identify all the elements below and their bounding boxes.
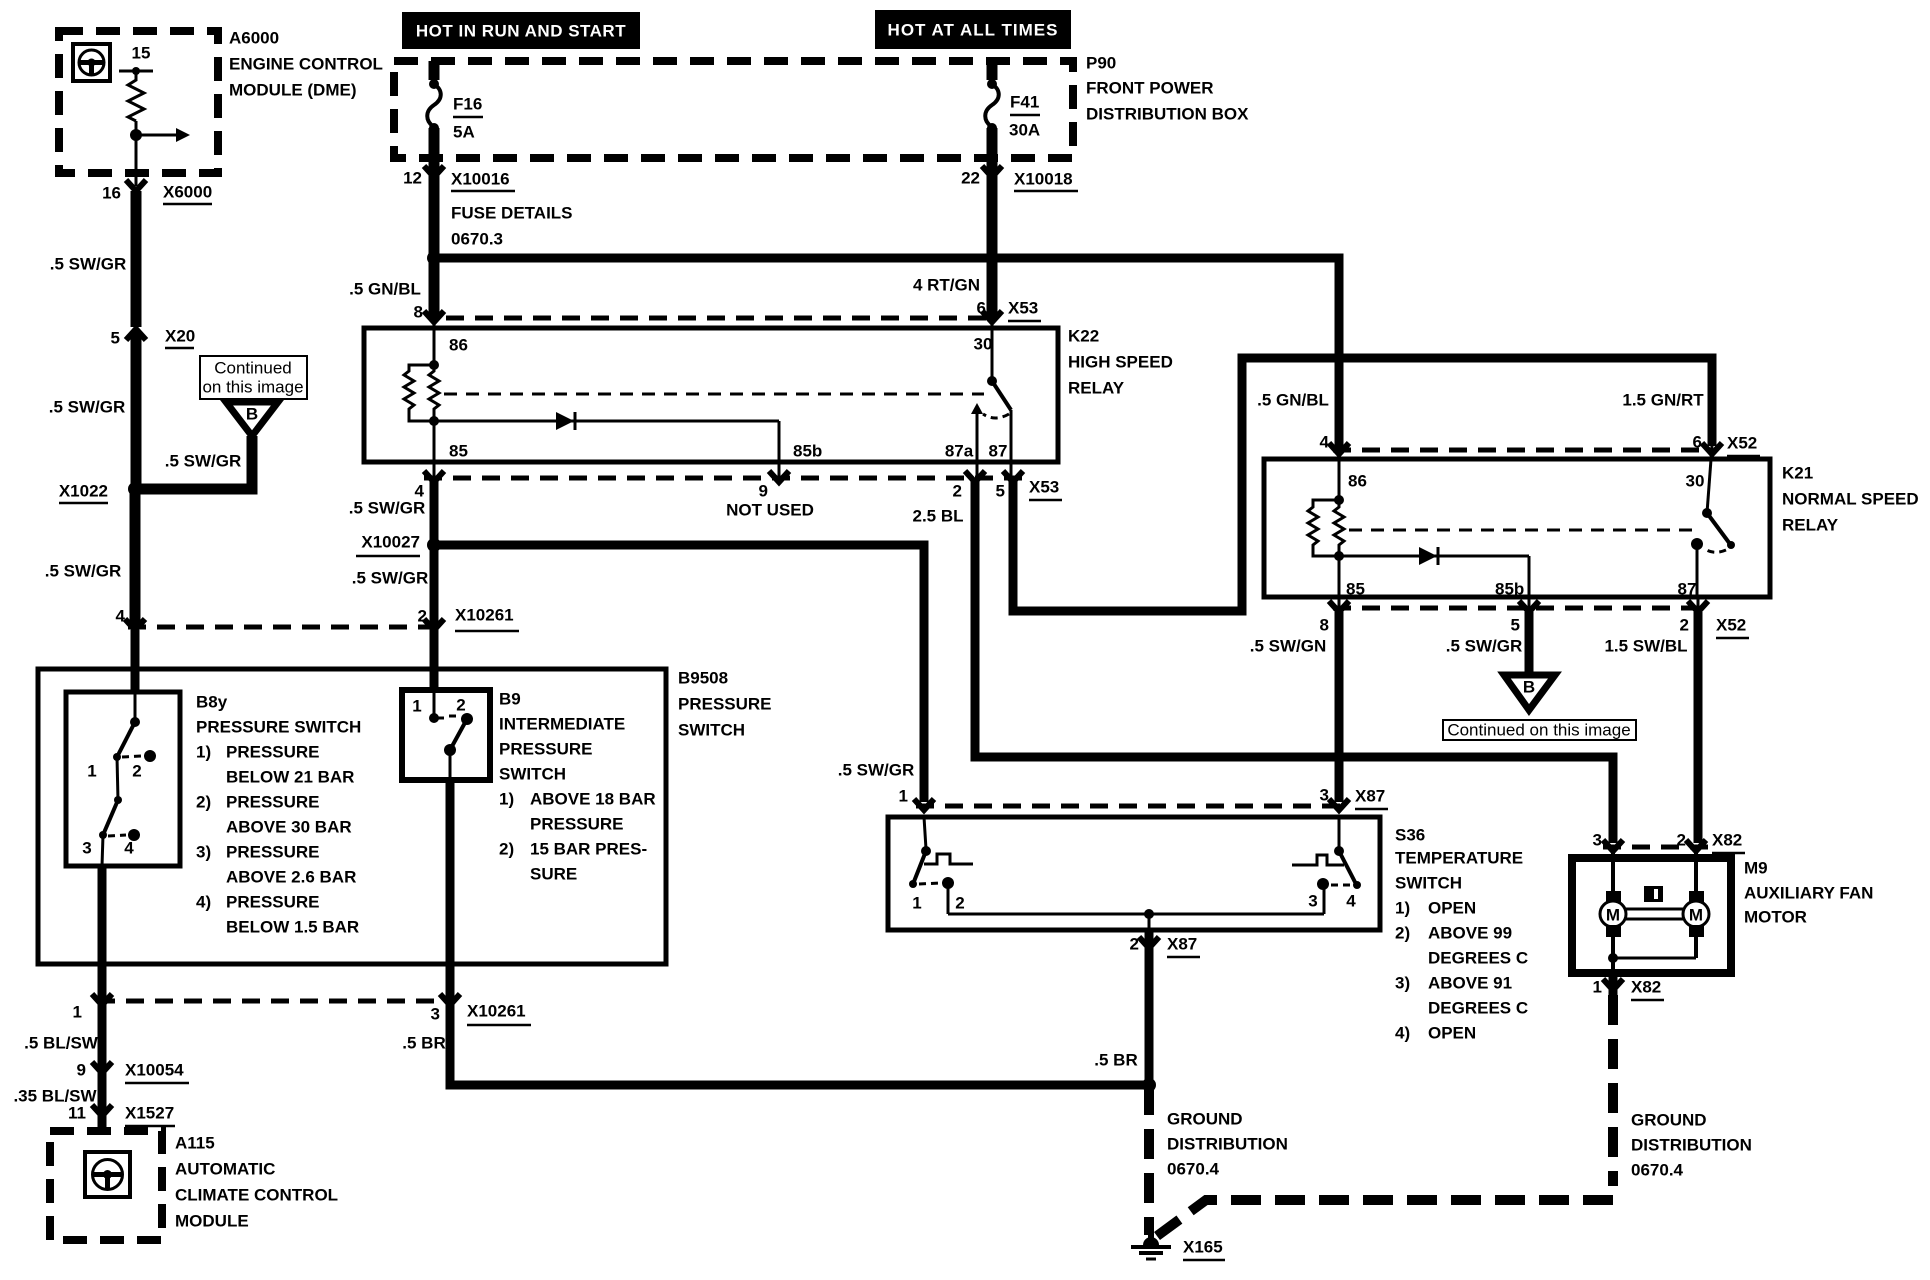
K22 armature link dashed [444,393,984,396]
X53 pin 9 chevron not used [726,471,814,520]
X53 pin 5 chevron [996,471,1023,501]
svg-text:INTERMEDIATE: INTERMEDIATE [499,715,625,734]
svg-text:DISTRIBUTION BOX: DISTRIBUTION BOX [1086,105,1249,124]
svg-text:.5 SW/GR: .5 SW/GR [349,499,426,518]
svg-text:OPEN: OPEN [1428,899,1476,918]
junction X10027 [356,533,441,557]
svg-text:X1022: X1022 [59,482,108,501]
junction fuse bus node [427,251,441,265]
svg-text:2: 2 [456,696,465,715]
svg-text:1): 1) [1395,899,1410,918]
svg-text:A115: A115 [175,1134,215,1153]
S36 right terminal labels [1308,892,1356,911]
connector X53 bottom label [1029,478,1062,501]
svg-text:RELAY: RELAY [1068,379,1125,398]
svg-text:F16: F16 [453,95,482,114]
svg-text:SWITCH: SWITCH [678,721,745,740]
svg-text:2): 2) [1395,924,1410,943]
svg-text:FRONT POWER: FRONT POWER [1086,79,1214,98]
svg-text:BELOW 1.5 BAR: BELOW 1.5 BAR [226,918,359,937]
note FUSE DETAILS 0670.3 [451,204,573,249]
B9 terminal labels [412,696,465,716]
fuse F41 [985,61,999,158]
front power distribution box P90 dashed border [394,61,1073,158]
X52 pin 2 chevron and label [1680,601,1749,638]
svg-text:X53: X53 [1029,478,1059,497]
svg-text:.5 GN/BL: .5 GN/BL [1257,391,1329,410]
svg-text:AUXILIARY FAN: AUXILIARY FAN [1744,884,1873,903]
connector X20 label [165,327,195,349]
svg-text:DISTRIBUTION: DISTRIBUTION [1167,1135,1288,1154]
svg-text:1: 1 [73,1003,82,1022]
svg-text:4: 4 [116,607,126,626]
svg-text:11: 11 [68,1104,86,1123]
svg-text:16: 16 [102,184,121,203]
continuation triangle B left [226,402,278,436]
svg-text:ABOVE 30 BAR: ABOVE 30 BAR [226,818,352,837]
wire M9 to ground stub [1609,973,1618,995]
module A6000 engine control module dashed box [59,31,218,173]
svg-text:X52: X52 [1716,616,1746,635]
svg-text:NORMAL SPEED: NORMAL SPEED [1782,490,1919,509]
svg-text:12: 12 [403,169,422,188]
intermediate pressure switch B9 box [402,690,490,780]
svg-text:2): 2) [499,840,514,859]
svg-text:Continued on this image: Continued on this image [1447,721,1630,740]
svg-text:3: 3 [1320,786,1329,805]
M9 right motor [1683,851,1709,958]
resistor inside A6000 [128,71,144,121]
svg-text:85: 85 [1346,580,1365,599]
B8y description text [196,693,361,937]
svg-text:2: 2 [1677,831,1686,850]
svg-text:.5 SW/GR: .5 SW/GR [45,562,122,581]
M9 resistor element icon [1644,886,1663,902]
connector X52 top dashed line [1333,448,1705,453]
svg-text:X10016: X10016 [451,170,510,189]
svg-text:5A: 5A [453,123,475,142]
svg-text:ABOVE 99: ABOVE 99 [1428,924,1512,943]
svg-text:9: 9 [759,482,768,501]
svg-text:P90: P90 [1086,54,1116,73]
S36 output bus to pin 2 [948,909,1324,930]
B9 switch internals [429,690,473,780]
wire X10261 pin 4 into B8y [131,630,140,694]
connector X10261 bottom dashed line [97,999,455,1004]
svg-text:MOTOR: MOTOR [1744,908,1807,927]
svg-text:NOT USED: NOT USED [726,501,814,520]
S36 labels [1395,826,1528,1043]
svg-text:87a: 87a [945,442,974,461]
svg-text:GROUND: GROUND [1167,1110,1243,1129]
svg-text:Continued: Continued [214,359,292,378]
X87 pin 1 chevron [899,787,934,811]
svg-text:PRESSURE: PRESSURE [499,740,593,759]
B9508 labels [678,669,772,740]
ground distribution note right [1631,1111,1752,1180]
relay K22 labels [1068,327,1173,398]
X82 pin 3 chevron [1593,831,1623,852]
connector X87 pin 2 chevron and label [1130,935,1200,958]
svg-text:.5 SW/GR: .5 SW/GR [838,761,915,780]
svg-text:3): 3) [1395,974,1410,993]
X52 pin 5 chevron [1511,601,1539,635]
module icon A6000 [73,44,110,81]
M9 internal ground link [1608,953,1696,973]
svg-text:2: 2 [1680,616,1689,635]
svg-text:5: 5 [1511,616,1520,635]
connector X1022 label [59,482,108,504]
svg-text:SURE: SURE [530,865,577,884]
fuse F16 labels [453,95,483,142]
svg-text:4 RT/GN: 4 RT/GN [913,276,980,295]
M9 left motor [1600,851,1626,958]
wire K22 pin 4 down to B9 .5 SW/GR [430,480,439,690]
M9 shaft coupling [1626,909,1683,919]
svg-text:2: 2 [132,762,141,781]
svg-text:1: 1 [87,762,96,781]
wire F16 to K22 pin 86 .5 GN/BL [429,158,440,320]
svg-text:.5 BL/SW: .5 BL/SW [24,1034,99,1053]
svg-text:X10018: X10018 [1014,170,1073,189]
svg-text:X20: X20 [165,327,195,346]
wire K22 87 output 1.5 GN/RT to K21 pin 30 [1013,358,1712,611]
M9 labels [1744,859,1873,927]
K21 diode and wire to 85b [1339,547,1529,597]
module A6000 labels [229,29,383,100]
continued note box right [1443,720,1636,740]
B8y switch internals [99,694,156,866]
svg-text:.5 SW/GR: .5 SW/GR [50,255,127,274]
svg-text:GROUND: GROUND [1631,1111,1707,1130]
svg-text:X52: X52 [1727,434,1757,453]
pressure switch assembly B9508 box [38,669,666,964]
svg-text:M: M [1606,906,1620,925]
junction ground node [1142,1078,1156,1092]
K22 switch pin 30 to 87 [971,320,1011,462]
svg-text:PRESSURE: PRESSURE [530,815,624,834]
svg-text:ABOVE 91: ABOVE 91 [1428,974,1512,993]
svg-text:1: 1 [899,787,908,806]
K22 coil [404,320,439,462]
connector X87 dashed line [916,804,1345,809]
svg-text:4): 4) [1395,1024,1410,1043]
wire K21 87 to M9 pin 2 1.5 SW/BL [1694,612,1703,843]
svg-text:PRESSURE: PRESSURE [226,793,320,812]
svg-text:HOT AT ALL TIMES: HOT AT ALL TIMES [888,21,1059,40]
connector X6000 pin 16 chevron [126,180,146,191]
svg-text:22: 22 [961,169,980,188]
svg-text:.5 SW/GR: .5 SW/GR [165,452,242,471]
connector X10261 pin 2 chevron [424,619,444,630]
svg-text:X1527: X1527 [125,1104,174,1123]
arrow output inside A6000 [136,128,190,142]
connector X53 pin 8 chevron [424,311,444,322]
svg-text:4: 4 [124,839,134,858]
svg-text:B9: B9 [499,690,521,709]
svg-text:ABOVE 2.6 BAR: ABOVE 2.6 BAR [226,868,356,887]
connector X10018 pin 22 [961,166,1078,191]
svg-text:SWITCH: SWITCH [1395,874,1462,893]
svg-text:X82: X82 [1712,831,1742,850]
continuation triangle B right [1504,675,1555,710]
ground distribution note left [1167,1110,1288,1179]
svg-text:B: B [246,405,258,424]
svg-text:PRESSURE: PRESSURE [678,695,772,714]
fuse F41 labels [1009,93,1040,140]
A115 labels [175,1134,338,1231]
wire X6000 to X20 .5 SW/GR [131,191,142,327]
svg-text:M9: M9 [1744,859,1768,878]
svg-text:SWITCH: SWITCH [499,765,566,784]
svg-text:X165: X165 [1183,1238,1223,1257]
wire X20 to X1022 .5 SW/GR [131,331,142,489]
K21 coil [1308,454,1344,597]
svg-text:87: 87 [1678,580,1697,599]
X10261 pin 1 chevron [73,994,112,1022]
svg-text:OPEN: OPEN [1428,1024,1476,1043]
svg-text:K22: K22 [1068,327,1099,346]
svg-text:on this image: on this image [202,378,303,397]
connector X1527 pin 11 [68,1104,175,1127]
svg-text:HOT IN RUN AND START: HOT IN RUN AND START [416,22,626,41]
svg-text:PRESSURE: PRESSURE [226,843,320,862]
svg-text:5: 5 [111,329,120,348]
relay K21 box [1264,459,1770,597]
svg-text:MODULE (DME): MODULE (DME) [229,81,356,100]
fuse F16 [427,61,441,158]
relay K21 labels [1782,464,1919,535]
svg-text:DEGREES C: DEGREES C [1428,949,1528,968]
wire K22 pin stubs to X53 [434,462,1011,478]
S36 left contact set [909,817,973,914]
svg-text:4: 4 [1320,433,1330,452]
svg-text:ENGINE CONTROL: ENGINE CONTROL [229,55,383,74]
svg-text:1: 1 [412,697,421,716]
K22 diode and wire to 85b [434,412,779,462]
K21 switch pin 30 to 87 [1691,446,1735,597]
connector X53 pin 6 chevron [982,311,1002,322]
wire X1022 to continuation B [135,436,252,489]
connector X10016 pin 12 [403,166,515,191]
wire K21 85b to continuation B [1525,612,1534,675]
svg-text:1): 1) [196,743,211,762]
svg-text:.5 SW/GR: .5 SW/GR [49,398,126,417]
junction X1022 [128,482,142,496]
module A115 automatic climate control dashed box [50,1131,162,1240]
B8y terminal labels [82,762,141,858]
power label HOT IN RUN AND START [402,12,640,49]
svg-text:CLIMATE CONTROL: CLIMATE CONTROL [175,1186,338,1205]
svg-text:X87: X87 [1167,935,1197,954]
svg-text:30: 30 [1686,472,1705,491]
svg-text:DEGREES C: DEGREES C [1428,999,1528,1018]
svg-text:3: 3 [1593,831,1602,850]
K22 bottom pin labels [449,442,1007,461]
svg-text:.5 BR: .5 BR [402,1034,445,1053]
svg-text:2: 2 [955,894,964,913]
connector X6000 label [163,183,212,205]
svg-text:30A: 30A [1009,121,1040,140]
connector X10261 pin 4 chevron [125,619,145,630]
svg-text:.5 BR: .5 BR [1094,1051,1137,1070]
X52 pin 4 chevron [1320,433,1349,455]
svg-text:6: 6 [977,299,986,318]
ground wire to X165 [1144,1085,1154,1235]
X87 pin 3 chevron and label [1320,786,1388,811]
X82 pin 2 chevron and label [1677,831,1745,854]
power label HOT AT ALL TIMES [875,10,1071,49]
connector X53 bottom dashed line [424,476,1022,481]
svg-text:B8y: B8y [196,693,228,712]
svg-text:3: 3 [1308,892,1317,911]
X53 pin 2 chevron [953,471,985,501]
svg-text:B9508: B9508 [678,669,728,688]
wire K21 pin 85 to S36 pin 3 .5 SW/GN [1335,612,1344,802]
box P90 labels [1086,54,1249,124]
svg-text:4): 4) [196,893,211,912]
continued note box left [200,356,307,399]
svg-text:DISTRIBUTION: DISTRIBUTION [1631,1136,1752,1155]
svg-text:8: 8 [414,303,423,322]
ground symbol X165 [1131,1232,1171,1259]
temperature switch S36 box [888,817,1380,930]
svg-text:X82: X82 [1631,978,1661,997]
pressure switch B8y box [66,692,180,866]
wire S36 pin 2 to ground node .5 BR [1145,930,1154,1088]
svg-text:1): 1) [499,790,514,809]
svg-text:X10054: X10054 [125,1061,184,1080]
module icon A115 [85,1152,130,1197]
svg-text:4: 4 [1346,892,1356,911]
svg-text:.5 SW/GN: .5 SW/GN [1250,637,1327,656]
svg-text:85b: 85b [1495,580,1524,599]
svg-text:0670.3: 0670.3 [451,230,503,249]
X53 pin 4 chevron [415,471,444,501]
svg-text:AUTOMATIC: AUTOMATIC [175,1160,275,1179]
svg-text:ABOVE 18 BAR: ABOVE 18 BAR [530,790,656,809]
connector X10261 label [455,606,519,632]
svg-text:X10027: X10027 [361,533,420,552]
svg-text:PRESSURE SWITCH: PRESSURE SWITCH [196,718,361,737]
svg-text:2.5 BL: 2.5 BL [912,507,963,526]
connector X52 bottom dashed line [1333,606,1705,611]
svg-text:BELOW 21 BAR: BELOW 21 BAR [226,768,354,787]
svg-text:15: 15 [132,44,151,63]
auxiliary fan motor M9 box [1572,858,1731,973]
connector X82 pin 1 chevron and label [1593,978,1664,1001]
svg-text:MODULE: MODULE [175,1212,249,1231]
svg-text:86: 86 [449,336,468,355]
svg-text:A6000: A6000 [229,29,279,48]
svg-text:X53: X53 [1008,299,1038,318]
connector X20 pin 5 chevron [126,329,146,340]
bus wire to K21 pin 4 .5 GN/BL [434,258,1339,450]
svg-text:X87: X87 [1355,787,1385,806]
svg-text:3: 3 [82,839,91,858]
wire node to pin 16 [135,135,138,186]
svg-text:RELAY: RELAY [1782,516,1839,535]
svg-text:8: 8 [1320,616,1329,635]
S36 left terminal labels [912,894,964,913]
svg-text:.5 SW/GR: .5 SW/GR [1446,637,1523,656]
svg-text:X10261: X10261 [467,1002,526,1021]
connector X82 dashed line [1603,845,1710,850]
wire K22 87a output 2.5 BL to M9 pin 3 [975,480,1613,843]
svg-text:30: 30 [974,335,993,354]
svg-text:1.5 GN/RT: 1.5 GN/RT [1622,391,1704,410]
X10261 pin 3 chevron and label [431,994,531,1025]
svg-text:F41: F41 [1010,93,1039,112]
svg-text:2): 2) [196,793,211,812]
junction node inside A6000 [130,129,142,141]
svg-text:X10261: X10261 [455,606,514,625]
svg-text:2: 2 [1130,935,1139,954]
svg-text:.5 SW/GR: .5 SW/GR [352,569,429,588]
svg-text:2: 2 [953,482,962,501]
wire X1022 down to X10261 pin 4 .5 SW/GR [130,489,141,625]
X52 pin 8 chevron [1320,601,1349,635]
svg-text:.5 GN/BL: .5 GN/BL [349,280,421,299]
connector X10261 top dashed line [128,625,434,630]
svg-text:FUSE DETAILS: FUSE DETAILS [451,204,573,223]
svg-text:86: 86 [1348,472,1367,491]
svg-text:1.5 SW/BL: 1.5 SW/BL [1604,637,1687,656]
svg-text:X6000: X6000 [163,183,212,202]
wire resistor to node [135,121,138,135]
svg-text:85: 85 [449,442,468,461]
svg-text:B: B [1523,678,1535,697]
connector X165 label [1183,1238,1225,1261]
svg-text:9: 9 [77,1061,86,1080]
svg-text:M: M [1689,906,1703,925]
B9 description text [499,690,656,884]
wire B9 to ground run .5 BR [450,780,1145,1085]
connector X10054 pin 9 [77,1061,189,1084]
connector X53 top dashed line [446,316,986,321]
svg-text:85b: 85b [793,442,822,461]
svg-text:5: 5 [996,482,1005,501]
svg-text:3: 3 [431,1005,440,1024]
S36 right contact set [1292,817,1361,914]
svg-text:3): 3) [196,843,211,862]
svg-text:K21: K21 [1782,464,1813,483]
svg-text:15 BAR PRES-: 15 BAR PRES- [530,840,647,859]
pin 15 terminal [119,67,153,75]
relay K22 box [364,328,1058,462]
svg-text:TEMPERATURE: TEMPERATURE [1395,849,1523,868]
svg-text:87: 87 [989,442,1008,461]
X52 pin 6 chevron and label [1693,433,1760,457]
wire B8y to A115 .5 BL/SW [98,866,107,1131]
svg-text:0670.4: 0670.4 [1167,1160,1220,1179]
connector X53 top label [1008,299,1041,322]
K21 bottom pin labels [1346,580,1696,599]
wire X10027 to S36 pin 1 .5 SW/GR [434,545,924,802]
wire F41 to K22 pin 30 4 RT/GN [987,158,998,320]
svg-text:S36: S36 [1395,826,1425,845]
svg-text:6: 6 [1693,433,1702,452]
svg-text:PRESSURE: PRESSURE [226,893,320,912]
svg-text:0670.4: 0670.4 [1631,1161,1684,1180]
ground bus dashed from M9 to X165 [1157,995,1613,1236]
svg-text:PRESSURE: PRESSURE [226,743,320,762]
svg-text:1: 1 [1593,978,1602,997]
svg-text:1: 1 [912,894,921,913]
wire K21 pin stubs to X52 [1339,597,1698,608]
K21 armature link dashed [1349,529,1696,532]
svg-text:HIGH SPEED: HIGH SPEED [1068,353,1173,372]
